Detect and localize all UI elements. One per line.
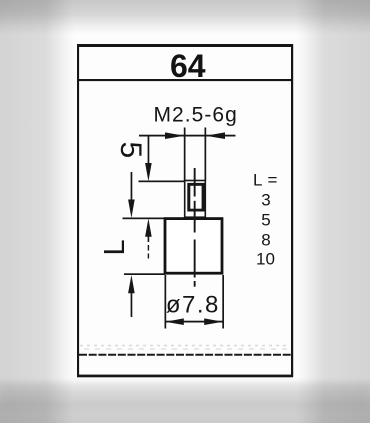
thread solid block — [187, 183, 205, 212]
witness line stem top (H1) — [139, 181, 186, 183]
svg-text:64: 64 — [170, 48, 206, 84]
svg-text:L =: L = — [253, 171, 278, 190]
outer box top border — [77, 44, 293, 47]
vignette bottom — [0, 378, 370, 423]
svg-text:L: L — [99, 239, 131, 255]
diameter right arrow (points right) — [204, 318, 223, 325]
vignette top — [0, 0, 370, 35]
svg-text:5: 5 — [261, 211, 270, 230]
svg-text:M2.5-6g: M2.5-6g — [154, 104, 238, 127]
diameter right witness line — [222, 275, 224, 329]
svg-text:5: 5 — [114, 141, 147, 158]
dimension 5: upper arrow down — [145, 163, 152, 181]
thread inner white window — [190, 186, 201, 209]
left extension line of thread — [184, 128, 186, 182]
dimension 5: lower tail — [148, 231, 150, 242]
stem outline — [185, 181, 206, 218]
svg-text:3: 3 — [261, 191, 270, 210]
outer box bottom border — [77, 375, 293, 378]
vignette right — [296, 0, 370, 423]
dimension L: lower arrow up — [128, 275, 135, 293]
witness line cylinder top (H2) — [123, 218, 166, 220]
left arrow (points right) — [165, 132, 184, 139]
header separator line — [78, 79, 291, 81]
svg-text:10: 10 — [256, 250, 275, 269]
right arrow (points left) — [206, 132, 225, 139]
centerline segments — [194, 168, 196, 197]
diameter dimension line — [165, 321, 223, 323]
svg-text:8: 8 — [261, 231, 270, 250]
diameter left arrow (points left) — [165, 318, 184, 325]
witness line cylinder bottom (H3) — [124, 273, 165, 275]
outer box right border — [291, 44, 293, 377]
vignette left — [0, 0, 74, 423]
dimension 5: lower arrow up — [145, 219, 152, 237]
dashed row separator near bottom — [79, 346, 291, 355]
thread dimension line — [139, 135, 236, 137]
dimension L: upper line — [131, 172, 133, 200]
dimension L: lower tail — [131, 288, 133, 317]
outer box left border — [77, 44, 79, 377]
page bottom edge shadow — [0, 384, 370, 410]
cylinder body — [165, 219, 222, 274]
svg-text:ø7.8: ø7.8 — [166, 292, 220, 319]
dimension 5: upper line — [148, 136, 150, 164]
diameter left witness line — [165, 275, 167, 329]
right extension line of thread — [205, 128, 207, 182]
dimension L: upper arrow down — [128, 200, 135, 219]
